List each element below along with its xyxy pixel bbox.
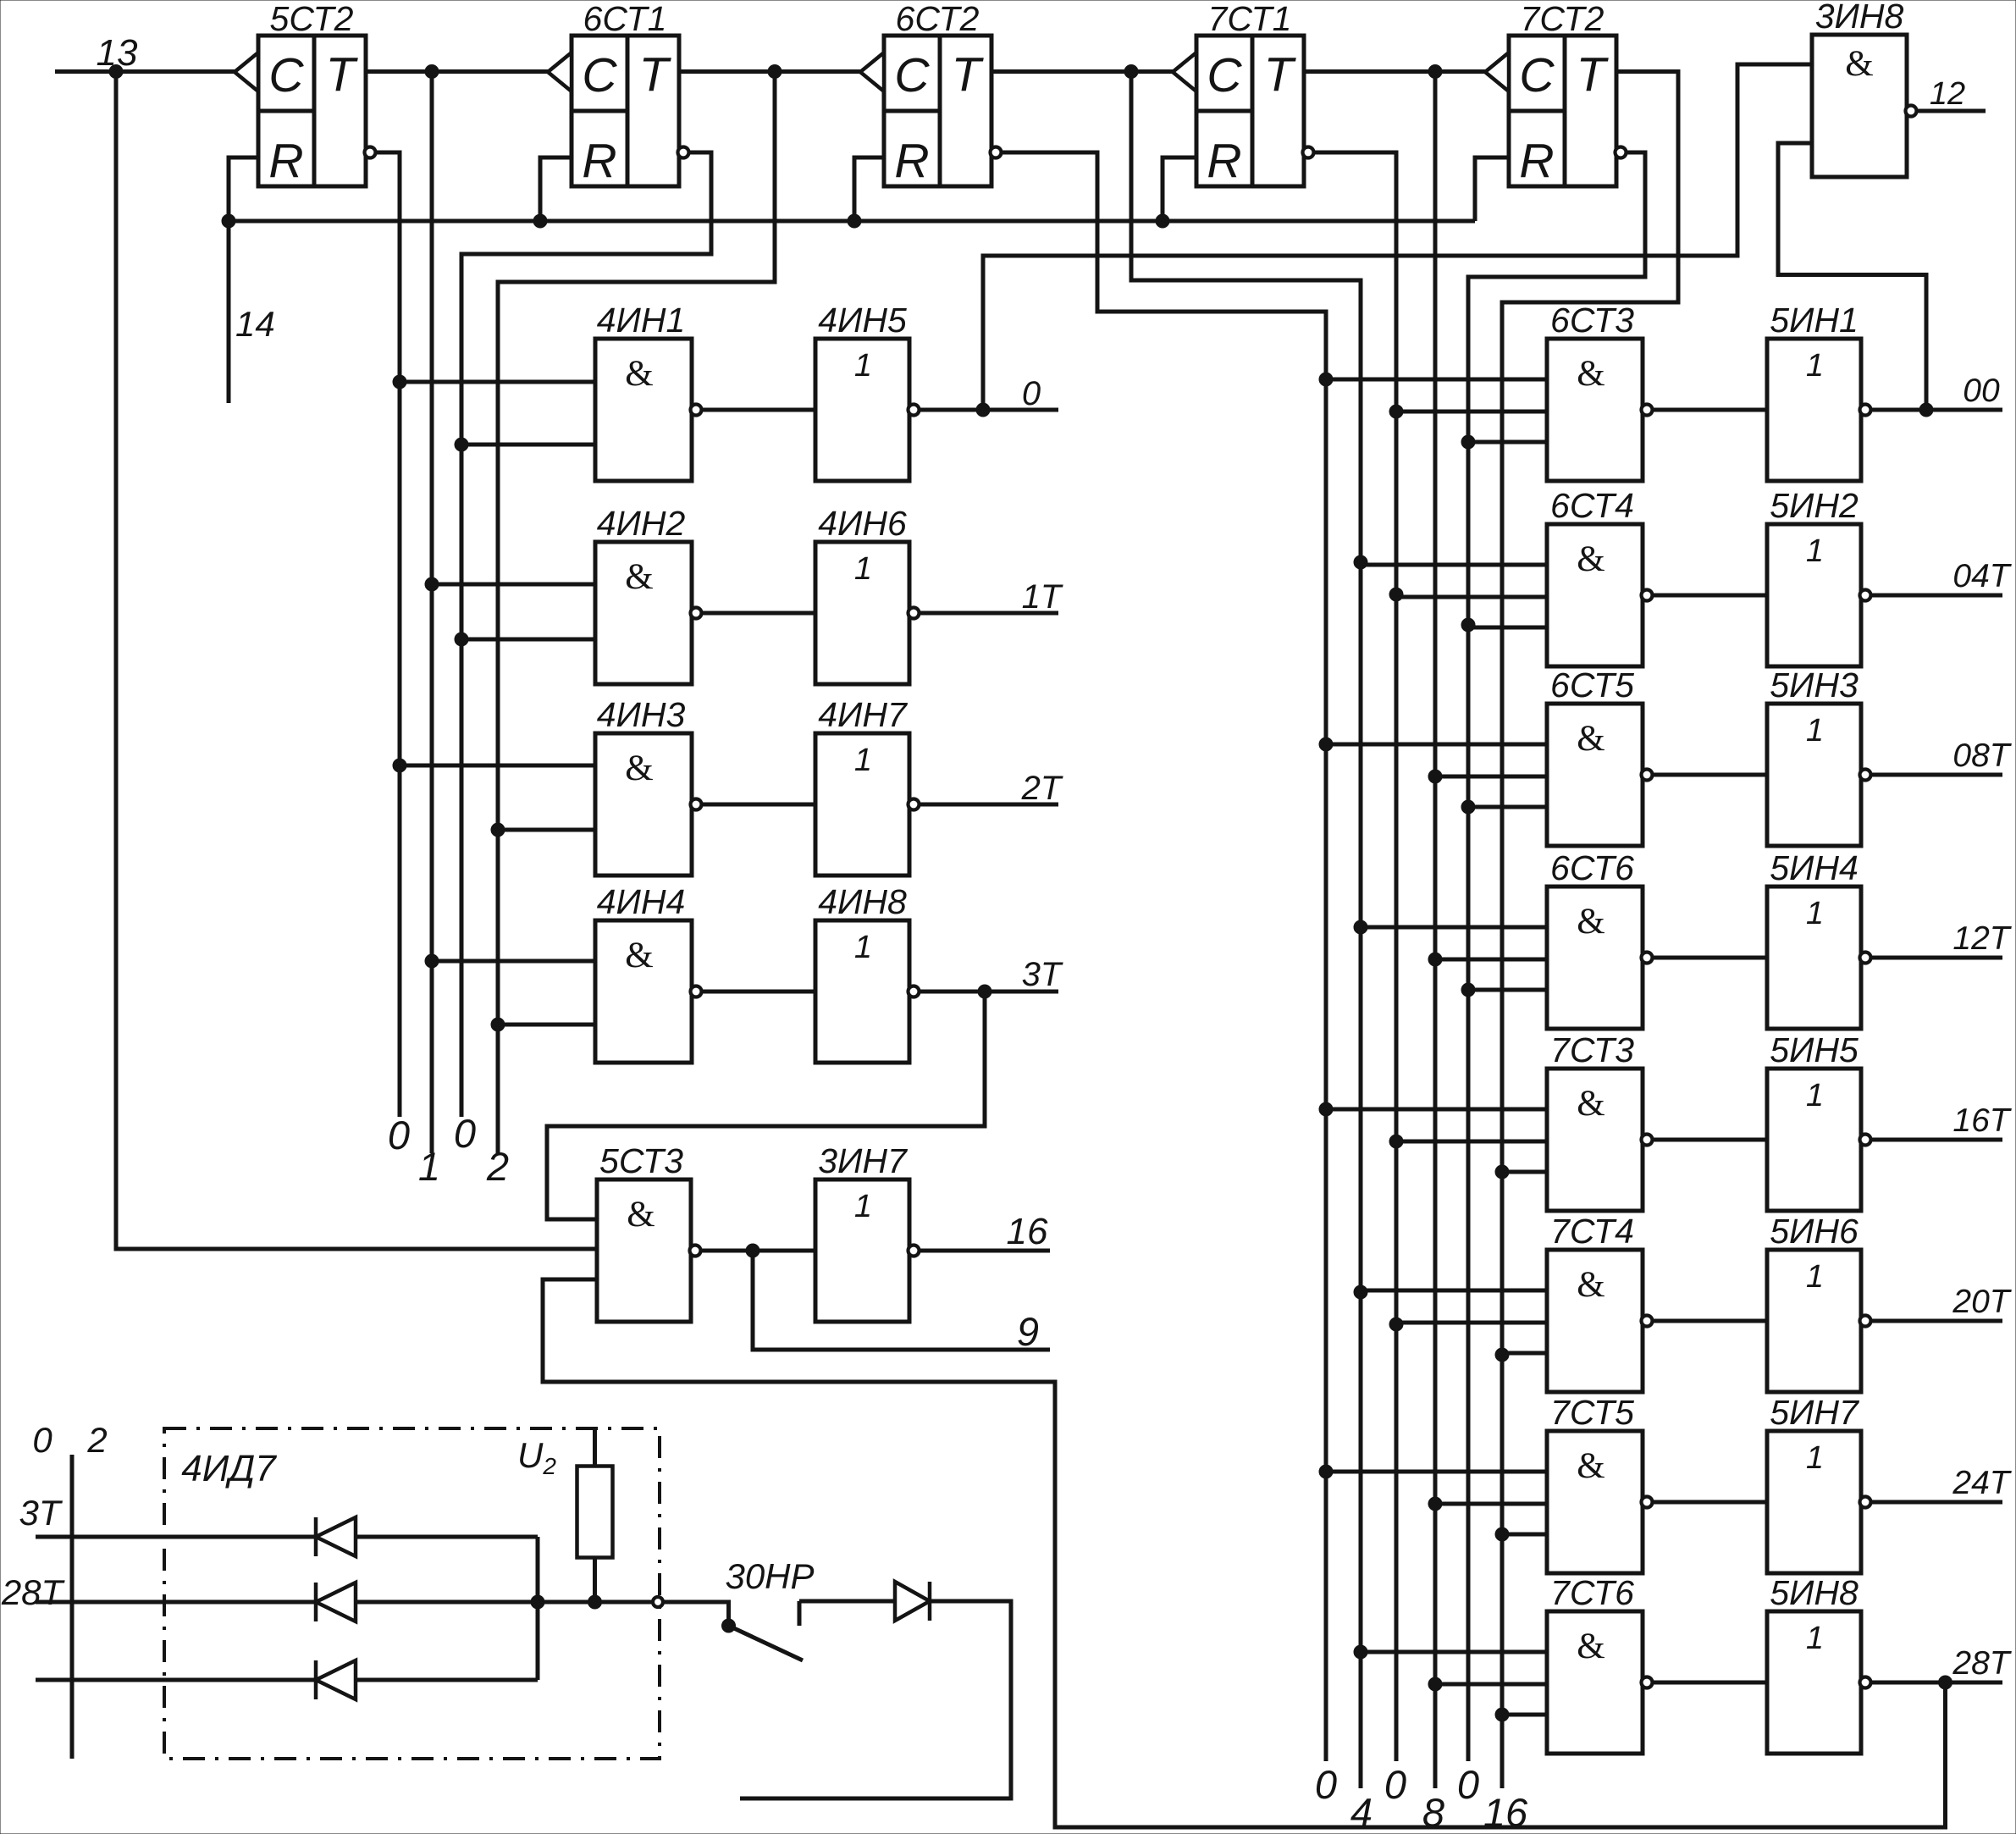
net 16 out label <box>1007 1211 1048 1252</box>
net 08Т label <box>1952 737 2012 774</box>
svg-text:1: 1 <box>1806 348 1824 384</box>
wire 6СТ4.in3 <box>1468 626 1547 630</box>
wire 7СТ3.in2 <box>1396 1140 1547 1144</box>
net 0b bottom label <box>454 1111 476 1156</box>
junction net8 to 6СТ5.in2 <box>1428 770 1442 783</box>
svg-text:T: T <box>1577 47 1610 102</box>
svg-text:4ИН3: 4ИН3 <box>597 695 686 734</box>
svg-text:1: 1 <box>1806 1440 1824 1476</box>
resistor U2 <box>577 1467 613 1558</box>
wire 4ИН3.in1 <box>400 764 595 768</box>
inverter 5ИН6 <box>1767 1212 1871 1392</box>
svg-text:3Т: 3Т <box>19 1493 63 1533</box>
inverter 5ИН4 <box>1767 848 1871 1029</box>
svg-text:16Т: 16Т <box>1952 1102 2012 1139</box>
wire 6СТ4.in2 <box>1396 595 1547 599</box>
svg-text:6СТ2: 6СТ2 <box>896 0 980 38</box>
net 3Т label <box>1022 956 1063 993</box>
svg-text:7СТ5: 7СТ5 <box>1550 1393 1634 1432</box>
wire 6СТ3.in3 <box>1468 440 1547 445</box>
svg-text:&: & <box>625 557 653 597</box>
svg-text:30НР: 30НР <box>725 1556 814 1596</box>
wire net0d route (7СТ1 inv out) <box>1312 152 1396 1761</box>
node 14 label <box>235 304 275 344</box>
wire 6СТ5.in3 <box>1468 805 1547 809</box>
svg-text:&: & <box>1577 354 1605 394</box>
wire 7СТ4 out to 5ИН6 <box>1654 1319 1767 1323</box>
diode VD1 <box>316 1517 356 1556</box>
svg-text:1: 1 <box>854 1189 872 1224</box>
junction net2 to 4ИН3.in2 <box>491 823 505 837</box>
junction 28Т to rail <box>1939 1676 1952 1689</box>
svg-text:1: 1 <box>1806 713 1824 749</box>
svg-text:12: 12 <box>1930 76 1965 112</box>
junction net0e to 6СТ5.in3 <box>1461 800 1475 814</box>
wire U2 bottom lead <box>593 1558 597 1603</box>
junction 5СТ2.T branch <box>425 65 439 79</box>
wire 6СТ2.R drop <box>854 157 884 221</box>
AND gate 4ИН3 <box>595 695 702 876</box>
svg-text:1: 1 <box>1806 1078 1824 1113</box>
wire third diode line <box>36 1678 538 1682</box>
svg-text:R: R <box>268 134 303 188</box>
wire 7СТ2.R drop <box>1475 157 1509 221</box>
wire 6СТ1.T to 6СТ2.C <box>677 69 860 74</box>
wire 7СТ6.in1 <box>1361 1650 1547 1654</box>
wire 6СТ6.in1 <box>1361 925 1547 930</box>
wire 4ИН4 out to 4ИН8 <box>702 990 815 994</box>
svg-text:4ИН1: 4ИН1 <box>597 301 686 340</box>
junction net16 to 7СТ3.in3 <box>1495 1165 1509 1179</box>
wire 5СТ2.T to 6СТ1.C <box>366 69 548 74</box>
svg-text:T: T <box>639 47 672 102</box>
wire 28Т feedback to 5СТ3.in3 <box>543 1279 1946 1827</box>
svg-text:9: 9 <box>1017 1309 1039 1354</box>
junction reset 7СТ1 <box>1156 214 1169 228</box>
svg-text:16: 16 <box>1007 1211 1048 1252</box>
wire 7СТ6.in2 <box>1435 1682 1547 1687</box>
wire net0c route (6СТ2 inv out) <box>1002 152 1326 1761</box>
wire output 12 line <box>1917 109 1986 113</box>
svg-text:7СТ4: 7СТ4 <box>1550 1212 1634 1251</box>
svg-text:0: 0 <box>388 1113 410 1157</box>
junction diode rail to switch line <box>531 1595 544 1609</box>
wire output 20Т line <box>1871 1319 2002 1323</box>
AND gate 7СТ5 <box>1547 1393 1653 1573</box>
junction net4 to 6СТ6.in1 <box>1354 920 1367 934</box>
net 2 bottom label <box>486 1144 509 1189</box>
junction net0c to 6СТ3.in1 <box>1319 373 1333 386</box>
net 9 label <box>1017 1309 1039 1354</box>
wire output 1Т line <box>920 611 1058 616</box>
svg-text:&: & <box>625 749 653 788</box>
svg-text:5СТ2: 5СТ2 <box>270 0 354 38</box>
wire 13 feed to 5СТ3 input2 <box>116 72 597 1250</box>
counter 6СТ1 <box>548 0 689 188</box>
svg-text:04Т: 04Т <box>1952 558 2012 594</box>
svg-text:2: 2 <box>86 1420 107 1460</box>
junction clock at x137 <box>109 65 123 79</box>
svg-text:5ИН3: 5ИН3 <box>1770 666 1859 704</box>
wire 4ИН1.in1 <box>400 380 595 384</box>
wire 3Т loop to 5СТ3.in1 <box>547 992 985 1219</box>
decoder 4ИД7 label <box>181 1448 277 1489</box>
junction net0e to 6СТ3.in3 <box>1461 435 1475 449</box>
net 0e bottom label <box>1457 1762 1479 1807</box>
wire 4ИН2.in2 <box>461 638 595 642</box>
svg-text:08Т: 08Т <box>1952 737 2012 774</box>
svg-text:7СТ6: 7СТ6 <box>1550 1573 1634 1612</box>
wire output 24Т line <box>1871 1500 2002 1505</box>
svg-text:1: 1 <box>854 930 872 965</box>
svg-text:&: & <box>1577 902 1605 942</box>
svg-text:&: & <box>1577 539 1605 579</box>
wire 5СТ2.R drop <box>229 157 258 403</box>
junction net0b to 4ИН1.in2 <box>455 438 468 451</box>
svg-text:00: 00 <box>1963 373 2000 409</box>
svg-text:1: 1 <box>854 551 872 587</box>
junction net4 to 6СТ4.in1 <box>1354 555 1367 569</box>
svg-text:4ИН8: 4ИН8 <box>818 882 907 921</box>
svg-text:5ИН5: 5ИН5 <box>1770 1030 1859 1069</box>
svg-text:&: & <box>1577 1265 1605 1305</box>
junction net1 to 4ИН4.in1 <box>425 954 439 968</box>
counter 6СТ2 <box>860 0 1002 188</box>
wire 6СТ1.R drop <box>540 157 572 221</box>
junction net0c to 6СТ5.in1 <box>1319 737 1333 751</box>
wire 4ИН4.in1 <box>432 959 595 964</box>
svg-text:3Т: 3Т <box>1022 956 1063 993</box>
inverter 4ИН6 <box>815 504 920 684</box>
AND gate 7СТ3 <box>1547 1030 1653 1211</box>
svg-text:24Т: 24Т <box>1952 1465 2012 1501</box>
inverter 5ИН2 <box>1767 486 1871 666</box>
svg-text:C: C <box>1207 48 1242 102</box>
wire 6СТ6.in3 <box>1468 988 1547 992</box>
net 24Т label <box>1952 1465 2012 1501</box>
junction net0d to 6СТ4.in2 <box>1389 588 1403 601</box>
wire 7СТ4.in2 <box>1396 1321 1547 1325</box>
wire switch out to diode <box>799 1599 895 1604</box>
wire 7СТ5.in1 <box>1326 1470 1547 1474</box>
wire 4ИН4.in2 <box>498 1023 595 1027</box>
net 12 label <box>1930 76 1965 112</box>
wire 7СТ1.T to 7СТ2.C <box>1302 69 1485 74</box>
wire 6СТ5.in1 <box>1326 743 1547 747</box>
inverter 3ИН7 <box>815 1141 920 1322</box>
junction net8 to 7СТ6.in2 <box>1428 1677 1442 1691</box>
svg-text:1: 1 <box>1806 533 1824 569</box>
wire 7СТ4.in1 <box>1361 1289 1547 1293</box>
svg-text:6СТ4: 6СТ4 <box>1550 486 1634 525</box>
net 2 bottom-left label <box>86 1420 107 1460</box>
svg-text:T: T <box>326 47 359 102</box>
svg-text:5ИН4: 5ИН4 <box>1770 848 1859 887</box>
AND gate 7СТ6 <box>1547 1573 1653 1754</box>
net 0c bottom label <box>1315 1762 1337 1807</box>
svg-text:7СТ1: 7СТ1 <box>1208 0 1292 38</box>
wire 4ИН3 out to 4ИН7 <box>702 803 815 807</box>
net 3Т input label <box>19 1493 63 1533</box>
net 28Т label <box>1952 1645 2012 1682</box>
wire net0 to ЗИН8 route <box>983 64 1812 410</box>
diode VD4 <box>895 1582 930 1621</box>
junction reset 6СТ1 <box>533 214 547 228</box>
wire net0b route (6СТ1 inv out) <box>461 152 711 1117</box>
svg-text:&: & <box>1577 1446 1605 1486</box>
svg-text:4ИН2: 4ИН2 <box>597 504 686 543</box>
wire 6СТ4.in1 <box>1361 563 1547 567</box>
junction net8 to 7СТ5.in2 <box>1428 1497 1442 1511</box>
wire 7СТ4.in3 <box>1502 1351 1547 1356</box>
inverter 5ИН3 <box>1767 666 1871 846</box>
svg-text:&: & <box>1577 1627 1605 1666</box>
wire 6СТ3.in1 <box>1326 378 1547 382</box>
AND gate 5СТ3 <box>597 1141 701 1322</box>
wire net1 vertical (5СТ2.T) <box>430 72 434 1154</box>
wire 4ИН3.in2 <box>498 828 595 832</box>
svg-text:0: 0 <box>32 1420 52 1460</box>
wire output 08Т line <box>1871 773 2002 777</box>
switch pivot <box>722 1619 736 1632</box>
svg-text:5ИН1: 5ИН1 <box>1770 301 1859 340</box>
svg-text:5ИН8: 5ИН8 <box>1770 1573 1859 1612</box>
net 1Т label <box>1022 578 1063 616</box>
net 0d bottom label <box>1384 1762 1406 1807</box>
wire net4 route (6СТ2.T) <box>1131 72 1361 1789</box>
svg-text:0: 0 <box>1384 1762 1406 1807</box>
AND gate 4ИН2 <box>595 504 702 684</box>
inverter 4ИН8 <box>815 882 920 1063</box>
wire net16 route (7СТ2.T) <box>1502 72 1678 1789</box>
svg-text:C: C <box>1519 48 1555 102</box>
svg-text:20Т: 20Т <box>1952 1284 2012 1320</box>
svg-text:5ИН6: 5ИН6 <box>1770 1212 1859 1251</box>
wire net0e route (7СТ2 inv out) <box>1468 152 1645 1761</box>
AND gate 3ИН8 <box>1812 0 1917 177</box>
net 2Т label <box>1021 770 1063 807</box>
svg-text:1Т: 1Т <box>1022 578 1063 616</box>
wire 7СТ6 out to 5ИН8 <box>1654 1681 1767 1685</box>
AND gate 6СТ6 <box>1547 848 1653 1029</box>
AND gate 6СТ3 <box>1547 301 1653 481</box>
wire 6СТ5.in2 <box>1435 775 1547 779</box>
svg-text:0: 0 <box>454 1111 476 1156</box>
wire net0a route (5СТ2 inv out) <box>376 152 400 1117</box>
counter 7СТ1 <box>1173 0 1314 188</box>
svg-text:0: 0 <box>1022 375 1041 412</box>
net 0a bottom label <box>388 1113 410 1157</box>
junction net0e to 6СТ6.in3 <box>1461 983 1475 997</box>
svg-text:&: & <box>627 1195 655 1235</box>
junction 9 branch <box>746 1244 759 1257</box>
svg-text:0: 0 <box>1457 1762 1479 1807</box>
junction 6СТ1.T branch <box>768 65 782 79</box>
wire net8 vertical (7СТ1.T) <box>1433 72 1438 1789</box>
svg-text:R: R <box>1207 134 1241 188</box>
diode VD3 <box>316 1660 356 1699</box>
wire 6СТ2.T to 7СТ1.C <box>991 69 1173 74</box>
svg-text:1: 1 <box>854 743 872 778</box>
inverter 5ИН8 <box>1767 1573 1871 1754</box>
wire 7СТ5.in3 <box>1502 1533 1547 1537</box>
wire 6СТ4 out to 5ИН2 <box>1654 594 1767 598</box>
svg-text:5СТ3: 5СТ3 <box>599 1141 683 1180</box>
svg-text:1: 1 <box>1806 1259 1824 1295</box>
wire 7СТ6.in3 <box>1502 1713 1547 1717</box>
junction net4 to 7СТ6.in1 <box>1354 1645 1367 1659</box>
junction net0d to 7СТ4.in2 <box>1389 1317 1403 1331</box>
junction net8 to 6СТ6.in2 <box>1428 953 1442 966</box>
svg-text:5ИН7: 5ИН7 <box>1770 1393 1860 1432</box>
svg-text:1: 1 <box>418 1144 440 1189</box>
junction 6СТ2.T branch <box>1124 65 1138 79</box>
junction 7СТ1.T branch <box>1428 65 1442 79</box>
junction net2 to 4ИН4.in2 <box>491 1018 505 1031</box>
junction net16 to 7СТ6.in3 <box>1495 1708 1509 1721</box>
svg-text:2: 2 <box>486 1144 509 1189</box>
svg-text:C: C <box>582 48 617 102</box>
counter 7СТ2 <box>1485 0 1627 188</box>
svg-text:6СТ6: 6СТ6 <box>1550 848 1634 887</box>
svg-text:C: C <box>894 48 930 102</box>
wire reset bus <box>229 219 1475 224</box>
junction 00 to ЗИН8 <box>1919 403 1933 417</box>
switch fixed contact circle <box>653 1597 663 1607</box>
inverter 5ИН1 <box>1767 301 1871 481</box>
net 8 bottom label <box>1422 1790 1444 1834</box>
net 12Т label <box>1952 920 2012 957</box>
switch blade <box>729 1626 804 1660</box>
junction net16 to 7СТ5.in3 <box>1495 1527 1509 1541</box>
wire 5СТ3 out to 3ИН7 <box>700 1249 815 1253</box>
wire output 9 line <box>753 1251 1050 1350</box>
svg-text:7СТ3: 7СТ3 <box>1550 1030 1634 1069</box>
wire 7СТ3.in3 <box>1502 1170 1547 1174</box>
wire bottom-left vertical <box>70 1455 75 1759</box>
svg-text:6СТ3: 6СТ3 <box>1550 301 1634 340</box>
AND gate 4ИН1 <box>595 301 702 481</box>
AND gate 6СТ4 <box>1547 486 1653 666</box>
wire output 12Т line <box>1871 956 2002 960</box>
net 1 bottom label <box>418 1144 440 1189</box>
diode VD2 <box>316 1583 356 1621</box>
wire 4ИН2 out to 4ИН6 <box>702 611 815 616</box>
wire output 0 line <box>920 408 1058 412</box>
junction net0a to 4ИН1.in1 <box>393 375 406 389</box>
svg-text:&: & <box>625 936 653 975</box>
wire output 16Т line <box>1871 1138 2002 1142</box>
wire 7СТ3 out to 5ИН5 <box>1654 1138 1767 1142</box>
wire output 3Т line <box>920 990 1058 994</box>
net 0 bottom-left label <box>32 1420 52 1460</box>
wire net2 route (6СТ1.T) <box>498 72 775 1154</box>
svg-text:3ИН8: 3ИН8 <box>1815 0 1904 36</box>
switch second contact nub <box>798 1601 802 1626</box>
svg-text:&: & <box>625 354 653 394</box>
junction net0d to 7СТ3.in2 <box>1389 1135 1403 1148</box>
wire 6СТ6 out to 5ИН4 <box>1654 956 1767 960</box>
svg-text:0: 0 <box>1315 1762 1337 1807</box>
junction net16 to 7СТ4.in3 <box>1495 1348 1509 1362</box>
inverter 5ИН5 <box>1767 1030 1871 1211</box>
svg-text:&: & <box>1577 719 1605 759</box>
junction net4 to 7СТ4.in1 <box>1354 1285 1367 1299</box>
wire 6СТ3 out to 5ИН1 <box>1654 408 1767 412</box>
net 4 bottom label <box>1350 1790 1373 1834</box>
svg-text:4ИН4: 4ИН4 <box>597 882 686 921</box>
svg-text:1: 1 <box>854 348 872 384</box>
label U2 <box>517 1435 556 1479</box>
wire 4ИН2.in1 <box>432 583 595 587</box>
svg-text:4ИН5: 4ИН5 <box>818 301 907 340</box>
inverter 5ИН7 <box>1767 1393 1871 1573</box>
svg-text:28Т: 28Т <box>1 1572 66 1612</box>
junction net0a to 4ИН3.in1 <box>393 759 406 772</box>
svg-text:&: & <box>1845 44 1873 84</box>
svg-text:T: T <box>952 47 985 102</box>
net 0 out label <box>1022 375 1041 412</box>
junction net0e to 6СТ4.in3 <box>1461 618 1475 632</box>
AND gate 6СТ5 <box>1547 666 1653 846</box>
counter 5СТ2 <box>235 0 376 188</box>
junction net0d to 6СТ3.in2 <box>1389 405 1403 418</box>
svg-text:3ИН7: 3ИН7 <box>818 1141 909 1180</box>
wire 7СТ1.R drop <box>1163 157 1196 221</box>
wire 7СТ5.in2 <box>1435 1502 1547 1506</box>
net 16 bottom label <box>1483 1790 1528 1834</box>
wire 6СТ3.in2 <box>1396 410 1547 414</box>
svg-text:5ИН2: 5ИН2 <box>1770 486 1859 525</box>
junction net0c to 7СТ3.in1 <box>1319 1102 1333 1116</box>
svg-text:R: R <box>894 134 929 188</box>
junction net1 to 4ИН2.in1 <box>425 577 439 591</box>
wire 6СТ5 out to 5ИН3 <box>1654 773 1767 777</box>
junction 3Т line <box>978 985 991 998</box>
wire 3Т diode line <box>36 1535 538 1539</box>
wire 7СТ3.in1 <box>1326 1108 1547 1112</box>
switch 30НР label <box>725 1556 814 1596</box>
inverter 4ИН7 <box>815 695 920 876</box>
wire diode VD4 output loop <box>740 1601 1011 1798</box>
wire diode common vertical <box>536 1537 540 1680</box>
svg-text:12Т: 12Т <box>1952 920 2012 957</box>
svg-text:4ИН7: 4ИН7 <box>818 695 909 734</box>
net 16Т label <box>1952 1102 2012 1139</box>
wire contact to pivot <box>663 1602 729 1623</box>
wire 28Т diode line <box>36 1600 654 1605</box>
svg-text:7СТ2: 7СТ2 <box>1521 0 1605 38</box>
junction U2 to switch line <box>588 1595 602 1609</box>
wire 4ИН1.in2 <box>461 443 595 447</box>
junction net0b to 4ИН2.in2 <box>455 633 468 646</box>
junction 0 line <box>976 403 990 417</box>
svg-text:14: 14 <box>235 304 275 344</box>
wire output 00 line <box>1871 408 2002 412</box>
node 13 label <box>97 32 138 74</box>
svg-text:28Т: 28Т <box>1952 1645 2012 1682</box>
junction net0c to 7СТ5.in1 <box>1319 1465 1333 1478</box>
svg-text:1: 1 <box>1806 896 1824 931</box>
svg-text:&: & <box>1577 1084 1605 1124</box>
inverter 4ИН5 <box>815 301 920 481</box>
svg-text:6СТ1: 6СТ1 <box>583 0 667 38</box>
svg-text:1: 1 <box>1806 1621 1824 1656</box>
net 04Т label <box>1952 558 2012 594</box>
junction reset bus left end <box>222 214 235 228</box>
net 00 label <box>1963 373 2000 409</box>
wire output 04Т line <box>1871 594 2002 598</box>
